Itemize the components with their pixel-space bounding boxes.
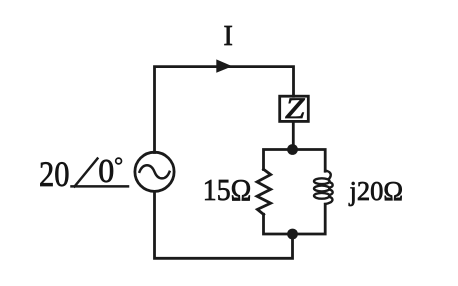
svg-text:15Ω: 15Ω (203, 172, 252, 207)
svg-text:j20Ω: j20Ω (349, 176, 403, 206)
svg-text:20: 20 (39, 154, 70, 194)
svg-text:0: 0 (98, 153, 114, 190)
svg-text:Z: Z (285, 92, 305, 125)
svg-text:I: I (224, 21, 233, 52)
